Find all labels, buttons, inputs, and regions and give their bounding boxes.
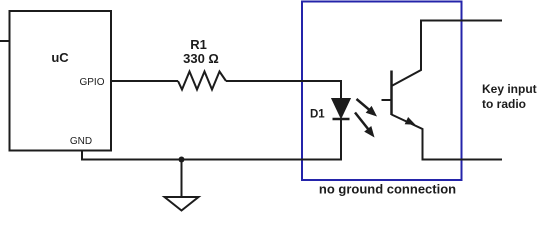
svg-text:D1: D1 xyxy=(310,109,325,121)
svg-text:GPIO: GPIO xyxy=(79,77,104,88)
svg-text:R1: R1 xyxy=(190,37,207,52)
wire: down to ground symbol xyxy=(181,160,183,198)
svg-text:no ground connection: no ground connection xyxy=(319,182,456,197)
wire: collector up to key line xyxy=(392,21,503,87)
wire: GPIO to R1 xyxy=(111,80,178,82)
ground symbol xyxy=(165,197,199,211)
wire: D1 cathode down to ground rail xyxy=(340,119,342,160)
svg-text:Key input: Key input xyxy=(482,82,537,96)
svg-text:to radio: to radio xyxy=(482,97,526,111)
arrowhead of light arrow 1 xyxy=(366,106,377,117)
wire: emitter down to key return line xyxy=(392,115,503,160)
opto transistor base bar xyxy=(390,71,393,116)
wire: uC GND down and ground rail to D1 xyxy=(82,151,342,160)
annotation box: isolation boundary (blue) xyxy=(302,2,462,181)
light arrow 2 (optocoupler emission) xyxy=(355,113,369,130)
opto transistor emitter arrowhead xyxy=(405,117,416,125)
svg-text:uC: uC xyxy=(51,50,69,65)
wire: stub at left of uC xyxy=(0,40,10,42)
arrowhead of light arrow 2 xyxy=(364,126,374,138)
LED D1 triangle xyxy=(333,99,350,117)
junction: ground node xyxy=(179,157,185,163)
svg-text:GND: GND xyxy=(70,136,92,147)
opto transistor base stub xyxy=(382,99,392,101)
light arrow 1 (optocoupler emission) xyxy=(357,99,370,110)
wire: R1 to D1 anode xyxy=(226,81,341,100)
svg-text:330 Ω: 330 Ω xyxy=(183,51,219,66)
LED D1 cathode bar xyxy=(333,118,350,121)
resistor R1 xyxy=(178,72,226,90)
uC microcontroller box xyxy=(10,11,112,151)
